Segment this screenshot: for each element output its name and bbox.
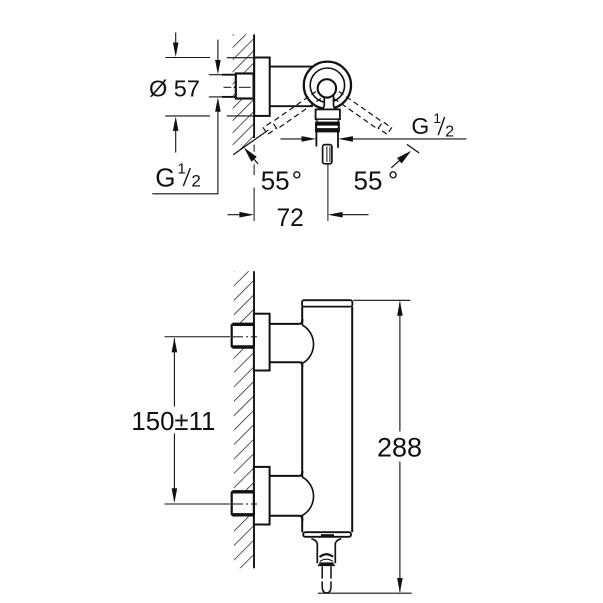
top union (side view) [270, 325, 304, 361]
wall hatch (side view) [234, 271, 254, 568]
inner circle [310, 68, 344, 102]
svg-text:°: ° [388, 166, 398, 196]
inlet pipe stub (top view) [222, 74, 237, 76]
neck (top view) [316, 109, 340, 119]
wall flange (top view) [254, 58, 270, 116]
top nut behind wall [232, 324, 254, 347]
dimension G1/2 right line with inward arrows [281, 138, 304, 140]
hex nut (top view) [236, 74, 254, 99]
center line below nipple [327, 164, 329, 221]
bottom nut behind wall [232, 492, 254, 516]
solid axis extension left (55deg) [233, 130, 268, 155]
center line bottom union [165, 503, 231, 505]
outer circle body (top view) [304, 62, 351, 109]
nipple (top view) [323, 145, 332, 164]
dashed lever rotated left [263, 92, 321, 135]
bottom flange (side view) [254, 467, 270, 525]
center line dashes over bottom nut [233, 503, 257, 505]
svg-text:G: G [155, 163, 175, 193]
top cap [302, 300, 352, 306]
svg-text:Ø 57: Ø 57 [149, 75, 200, 101]
bottom union (side view) [270, 477, 304, 515]
svg-text:2: 2 [191, 171, 200, 190]
center line top union [165, 336, 231, 338]
svg-text:°: ° [292, 165, 302, 195]
extension line x=254.1 dashed (for 72) [253, 145, 255, 152]
inlet pipe extension lines (left thin) [209, 74, 223, 76]
dimension Ø57: top arrow [175, 33, 177, 49]
center line dashes over top nut [233, 336, 257, 338]
knob circle [318, 79, 336, 97]
dimension 72 [228, 214, 242, 216]
leader arrow 55 left [244, 148, 257, 162]
dimension 288 [353, 299, 410, 301]
outlet tube sides (top view) [315, 132, 317, 147]
wall hatch (top view) [233, 34, 255, 155]
svg-text:55: 55 [261, 165, 290, 195]
thin collar [317, 119, 338, 122]
wall surface line (top view) [253, 34, 255, 138]
bottom cap [303, 532, 351, 537]
svg-text:150±11: 150±11 [131, 408, 215, 436]
axis tick right (55deg) [407, 144, 419, 153]
wall surface line (side view) [253, 271, 255, 568]
svg-text:1: 1 [178, 161, 186, 178]
dimension 150±11 [173, 338, 175, 406]
leader arrow 55 right [397, 151, 411, 164]
svg-text:288: 288 [377, 432, 422, 462]
svg-text:72: 72 [277, 205, 304, 232]
svg-text:1: 1 [433, 110, 441, 126]
lever shaft with flare (top view) [318, 93, 339, 110]
svg-text:2: 2 [445, 123, 454, 140]
outlet dark band + bottom [319, 562, 333, 565]
svg-text:G: G [411, 113, 429, 139]
dashed lever rotated right [334, 92, 392, 135]
hose [322, 566, 331, 593]
dimension Ø57: bottom arrow [173, 116, 179, 130]
outlet funnel below body [311, 539, 317, 564]
dimension Ø57: extension lines [165, 57, 210, 59]
top flange (side view) [254, 314, 270, 371]
dimension G1/2 left: leader arrows [217, 40, 219, 66]
ring block [316, 123, 339, 132]
body cylinder (side view) [302, 301, 352, 535]
dome inside outlet [320, 554, 333, 557]
svg-text:55: 55 [354, 166, 383, 196]
union body lines (top view) [270, 66, 313, 68]
center line of inlet (top view) [224, 86, 232, 88]
